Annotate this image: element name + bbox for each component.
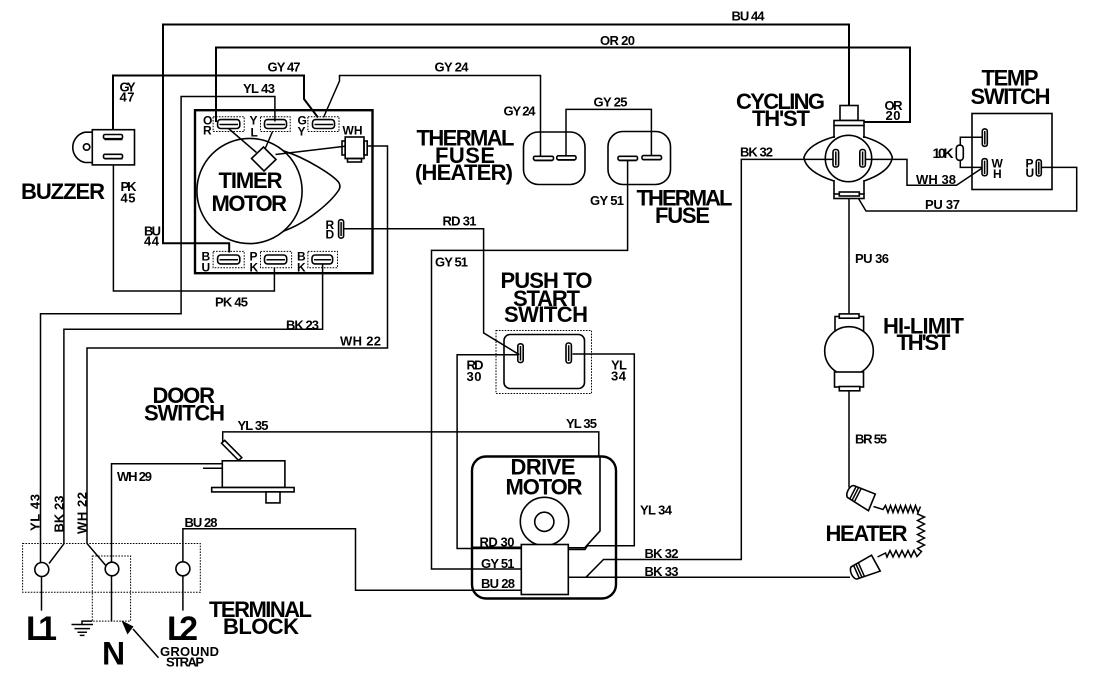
label RD 30 stacked xyxy=(467,358,484,385)
timer terminal letters R D xyxy=(326,218,335,241)
wire YL 34 : push-to-start switch to drive motor xyxy=(568,354,635,550)
wire BU 44 : timer BU terminal to cycling thermostat top xyxy=(163,25,849,253)
timer terminal YL xyxy=(261,117,291,132)
svg-text:SWITCH: SWITCH xyxy=(504,302,588,327)
label PUSH TO START SWITCH xyxy=(501,268,593,327)
label TEMP SWITCH xyxy=(971,66,1051,110)
svg-text:GY 51: GY 51 xyxy=(481,556,515,571)
push-to-start switch xyxy=(496,331,592,394)
svg-text:N: N xyxy=(102,636,125,672)
svg-text:30: 30 xyxy=(467,369,482,384)
svg-text:WH: WH xyxy=(343,123,363,137)
svg-text:GY 51: GY 51 xyxy=(435,255,468,270)
label GY 51 at drive motor xyxy=(481,556,515,571)
wire BK 23 : timer BK terminal to terminal block L1 xyxy=(49,264,323,564)
wire RD 30 : push-to-start switch to drive motor xyxy=(457,355,522,549)
svg-text:YL 43: YL 43 xyxy=(243,81,275,96)
label N xyxy=(102,636,125,672)
label PK 45 second xyxy=(215,295,248,310)
timer terminal label WH xyxy=(343,123,363,137)
svg-text:BK 33: BK 33 xyxy=(645,564,679,579)
wire WH 22 : timer WH terminal to terminal block N xyxy=(87,146,388,566)
thermal fuse body xyxy=(608,132,671,185)
buzzer xyxy=(73,130,135,165)
svg-text:BK 32: BK 32 xyxy=(740,145,773,160)
timer motor circle xyxy=(197,138,302,243)
svg-text:SWITCH: SWITCH xyxy=(144,401,225,426)
label GY 47 top xyxy=(268,60,301,75)
wire PU 37 : cycling thermostat bottom to temp switch PU terminal xyxy=(859,167,1077,211)
svg-text:34: 34 xyxy=(611,369,627,384)
svg-text:BK 32: BK 32 xyxy=(645,546,679,561)
ground symbol xyxy=(72,621,94,635)
label L2 xyxy=(167,610,198,648)
label YL 35 xyxy=(238,418,269,433)
drive motor inner silhouette xyxy=(473,458,600,548)
timer terminal letters G Y xyxy=(298,113,307,138)
svg-text:BK 23: BK 23 xyxy=(52,496,67,533)
label BK 32 xyxy=(740,145,773,160)
terminal block body xyxy=(23,544,201,622)
timer terminal PK xyxy=(261,251,292,267)
svg-text:WH 22: WH 22 xyxy=(340,334,381,349)
svg-text:L2: L2 xyxy=(167,610,198,648)
wire BK 32 : drive motor to cycling thermostat left bar xyxy=(568,159,834,577)
timer terminal letters Y L xyxy=(250,113,258,139)
timer terminal OR xyxy=(213,117,244,132)
label BK 32 second xyxy=(645,546,679,561)
cycling thermostat xyxy=(804,106,892,199)
svg-text:PK 45: PK 45 xyxy=(215,295,248,310)
svg-text:GY 24: GY 24 xyxy=(504,104,537,119)
label GY 51 second xyxy=(435,255,468,270)
timer terminal letters P K xyxy=(250,249,259,274)
wire 10K resistor top lead xyxy=(960,137,982,145)
label GROUND STRAP xyxy=(160,644,219,670)
svg-text:TH'ST: TH'ST xyxy=(897,330,952,355)
label CYCLING TH'ST xyxy=(736,89,825,131)
timer box xyxy=(195,110,373,273)
svg-text:WH 22: WH 22 xyxy=(75,492,90,534)
drive motor housing xyxy=(472,457,616,599)
label YL 43 vertical xyxy=(28,494,43,531)
temp switch box xyxy=(972,114,1052,190)
wire GY 25 : thermal fuse (heater) right bar to thermal fuse right bar xyxy=(566,109,651,156)
svg-text:H: H xyxy=(993,167,1002,181)
svg-text:PU 37: PU 37 xyxy=(925,197,960,212)
svg-text:RD 30: RD 30 xyxy=(480,535,515,550)
svg-text:OR 20: OR 20 xyxy=(600,33,635,48)
timer linkage OR to cam xyxy=(229,129,257,153)
label L1 xyxy=(26,610,57,648)
timer terminal RD slot xyxy=(339,220,344,238)
label BU 28 at terminal block xyxy=(185,515,218,530)
label GY 25 xyxy=(594,95,628,110)
timer terminal letters B K xyxy=(297,249,306,274)
label RD 30 at drive motor xyxy=(480,535,515,550)
label YL 34 stacked xyxy=(611,358,627,384)
label BU 44 xyxy=(732,9,766,24)
label DRIVE MOTOR xyxy=(506,455,583,500)
label DOOR SWITCH xyxy=(144,383,225,426)
svg-text:10K: 10K xyxy=(933,145,954,161)
svg-text:BK 23: BK 23 xyxy=(286,318,319,333)
svg-text:GY 25: GY 25 xyxy=(594,95,628,110)
heater element zigzag xyxy=(874,506,925,558)
svg-text:TIMER: TIMER xyxy=(219,168,283,193)
svg-text:MOTOR: MOTOR xyxy=(212,191,288,216)
svg-text:L1: L1 xyxy=(26,610,57,648)
svg-text:BU 28: BU 28 xyxy=(481,576,515,591)
label WH 22 xyxy=(340,334,381,349)
label THERMAL FUSE (HEATER) xyxy=(415,125,515,185)
label HI-LIMIT TH'ST xyxy=(883,314,965,356)
svg-text:RD 31: RD 31 xyxy=(443,214,477,229)
wire BU 28 : terminal block L2 to drive motor xyxy=(183,529,522,591)
svg-text:Y: Y xyxy=(298,124,306,138)
timer cam diamond xyxy=(252,147,277,171)
label PU 36 xyxy=(855,251,889,266)
svg-text:YL 34: YL 34 xyxy=(640,503,673,518)
timer terminal letters O R xyxy=(203,113,212,137)
label WH 22 vertical xyxy=(75,492,90,534)
svg-text:GY 24: GY 24 xyxy=(435,60,470,75)
door switch xyxy=(203,440,294,503)
svg-text:YL 35: YL 35 xyxy=(566,416,597,431)
drive motor rotor circles xyxy=(520,497,568,545)
svg-text:D: D xyxy=(326,227,335,241)
wire OR 20 : timer OR terminal to cycling thermostat collar xyxy=(216,48,910,123)
wire PK 45 : buzzer bottom to timer PK terminal xyxy=(113,158,274,291)
svg-text:WH 38: WH 38 xyxy=(916,172,956,187)
wire RD 31 : timer RD terminal to push-to-start switch xyxy=(344,229,520,355)
timer linkage cam to WH terminal xyxy=(276,146,346,154)
10K resistor xyxy=(956,145,963,160)
timer terminal GY xyxy=(308,117,339,132)
svg-text:44: 44 xyxy=(144,234,160,249)
label HEATER xyxy=(826,521,908,546)
svg-text:PU 36: PU 36 xyxy=(855,251,889,266)
wire YL 43 : terminal block L1 to timer YL terminal xyxy=(41,97,275,563)
timer terminal letters B U xyxy=(202,249,211,274)
svg-text:YL 35: YL 35 xyxy=(238,418,269,433)
wire GY 47 : buzzer top to timer GY terminal xyxy=(113,76,318,136)
svg-text:L: L xyxy=(251,125,258,139)
label BK 23 vertical xyxy=(52,496,67,533)
label BR 55 xyxy=(855,432,887,447)
svg-text:STRAP: STRAP xyxy=(166,655,204,670)
timer terminal BU xyxy=(213,251,244,267)
svg-text:BU 44: BU 44 xyxy=(732,9,766,24)
label BU 28 at drive motor xyxy=(481,576,515,591)
heater top terminal cone xyxy=(844,482,877,511)
svg-text:GY 51: GY 51 xyxy=(590,193,624,208)
label TERMINAL BLOCK xyxy=(209,597,312,639)
svg-text:U: U xyxy=(202,260,211,274)
label RD 31 xyxy=(443,214,477,229)
svg-text:HEATER: HEATER xyxy=(826,521,908,546)
svg-text:45: 45 xyxy=(121,191,136,206)
wire BK 33 : drive motor to heater bottom terminal xyxy=(568,576,851,578)
label TIMER MOTOR xyxy=(212,168,288,216)
label PK 45 stacked at buzzer xyxy=(121,179,138,206)
label BK 33 xyxy=(645,564,679,579)
label WH 29 xyxy=(117,469,152,484)
label PU 37 xyxy=(925,197,960,212)
wire WH 38 : cycling thermostat right bar to temp switch WH terminal xyxy=(865,159,982,185)
svg-text:SWITCH: SWITCH xyxy=(971,84,1051,109)
label GY 24 second xyxy=(504,104,537,119)
timer terminal WH xyxy=(342,137,367,162)
label YL 35 second xyxy=(566,416,597,431)
drive motor terminal block xyxy=(521,545,568,595)
wire WH 29 : terminal block N to door switch xyxy=(112,464,223,568)
svg-text:BLOCK: BLOCK xyxy=(223,614,299,639)
svg-text:K: K xyxy=(250,260,259,274)
label BUZZER xyxy=(21,179,105,204)
label THERMAL FUSE xyxy=(637,185,733,228)
svg-text:MOTOR: MOTOR xyxy=(506,475,583,500)
label GY 47 stacked at buzzer xyxy=(120,80,136,105)
label OR 20 stacked xyxy=(885,98,904,123)
timer terminal BK xyxy=(308,251,338,267)
label BU 44 stacked xyxy=(144,224,161,249)
timer cam teardrop xyxy=(283,151,340,231)
wire 10K resistor bottom lead xyxy=(960,160,982,167)
label BK 23 xyxy=(286,318,319,333)
timer linkage YL to cam xyxy=(265,132,273,150)
label YL 43 top xyxy=(243,81,275,96)
label YL 34 second xyxy=(640,503,673,518)
thermal fuse (heater) body xyxy=(524,132,586,185)
svg-text:20: 20 xyxy=(886,108,901,123)
wire YL 35 : door switch lever to drive motor top xyxy=(223,432,599,457)
label 10K xyxy=(933,145,954,161)
ground strap arrow xyxy=(122,621,159,658)
svg-text:BR 55: BR 55 xyxy=(855,432,887,447)
label WH 38 xyxy=(916,172,956,187)
hi-limit thermostat xyxy=(825,314,874,391)
svg-text:K: K xyxy=(297,260,306,274)
temp switch letters P U xyxy=(1026,156,1035,180)
svg-text:BU 28: BU 28 xyxy=(185,515,218,530)
label GY 24 top xyxy=(435,60,470,75)
svg-text:BUZZER: BUZZER xyxy=(21,179,105,204)
wire BR 55 : hi-limit thermostat bottom to heater top terminal xyxy=(848,391,850,488)
label GY 51 xyxy=(590,193,624,208)
wire PU 36 : cycling thermostat bottom to hi-limit thermostat top xyxy=(848,199,850,315)
svg-text:FUSE: FUSE xyxy=(655,203,710,228)
heater bottom terminal cone xyxy=(848,555,880,583)
svg-text:(HEATER): (HEATER) xyxy=(415,160,513,185)
svg-text:GY 47: GY 47 xyxy=(268,60,301,75)
svg-text:WH 29: WH 29 xyxy=(117,469,152,484)
svg-text:R: R xyxy=(203,123,212,137)
temp switch letters W H xyxy=(992,156,1004,181)
wire GY 24 : timer GY terminal to thermal fuse (heater) left bar xyxy=(324,76,541,157)
label OR 20 xyxy=(600,33,635,48)
svg-text:TH'ST: TH'ST xyxy=(752,106,811,131)
svg-text:YL 43: YL 43 xyxy=(28,494,43,531)
wire GY 51 : thermal fuse left bar to drive motor xyxy=(432,160,628,570)
svg-text:47: 47 xyxy=(120,90,135,105)
svg-text:U: U xyxy=(1026,166,1035,180)
